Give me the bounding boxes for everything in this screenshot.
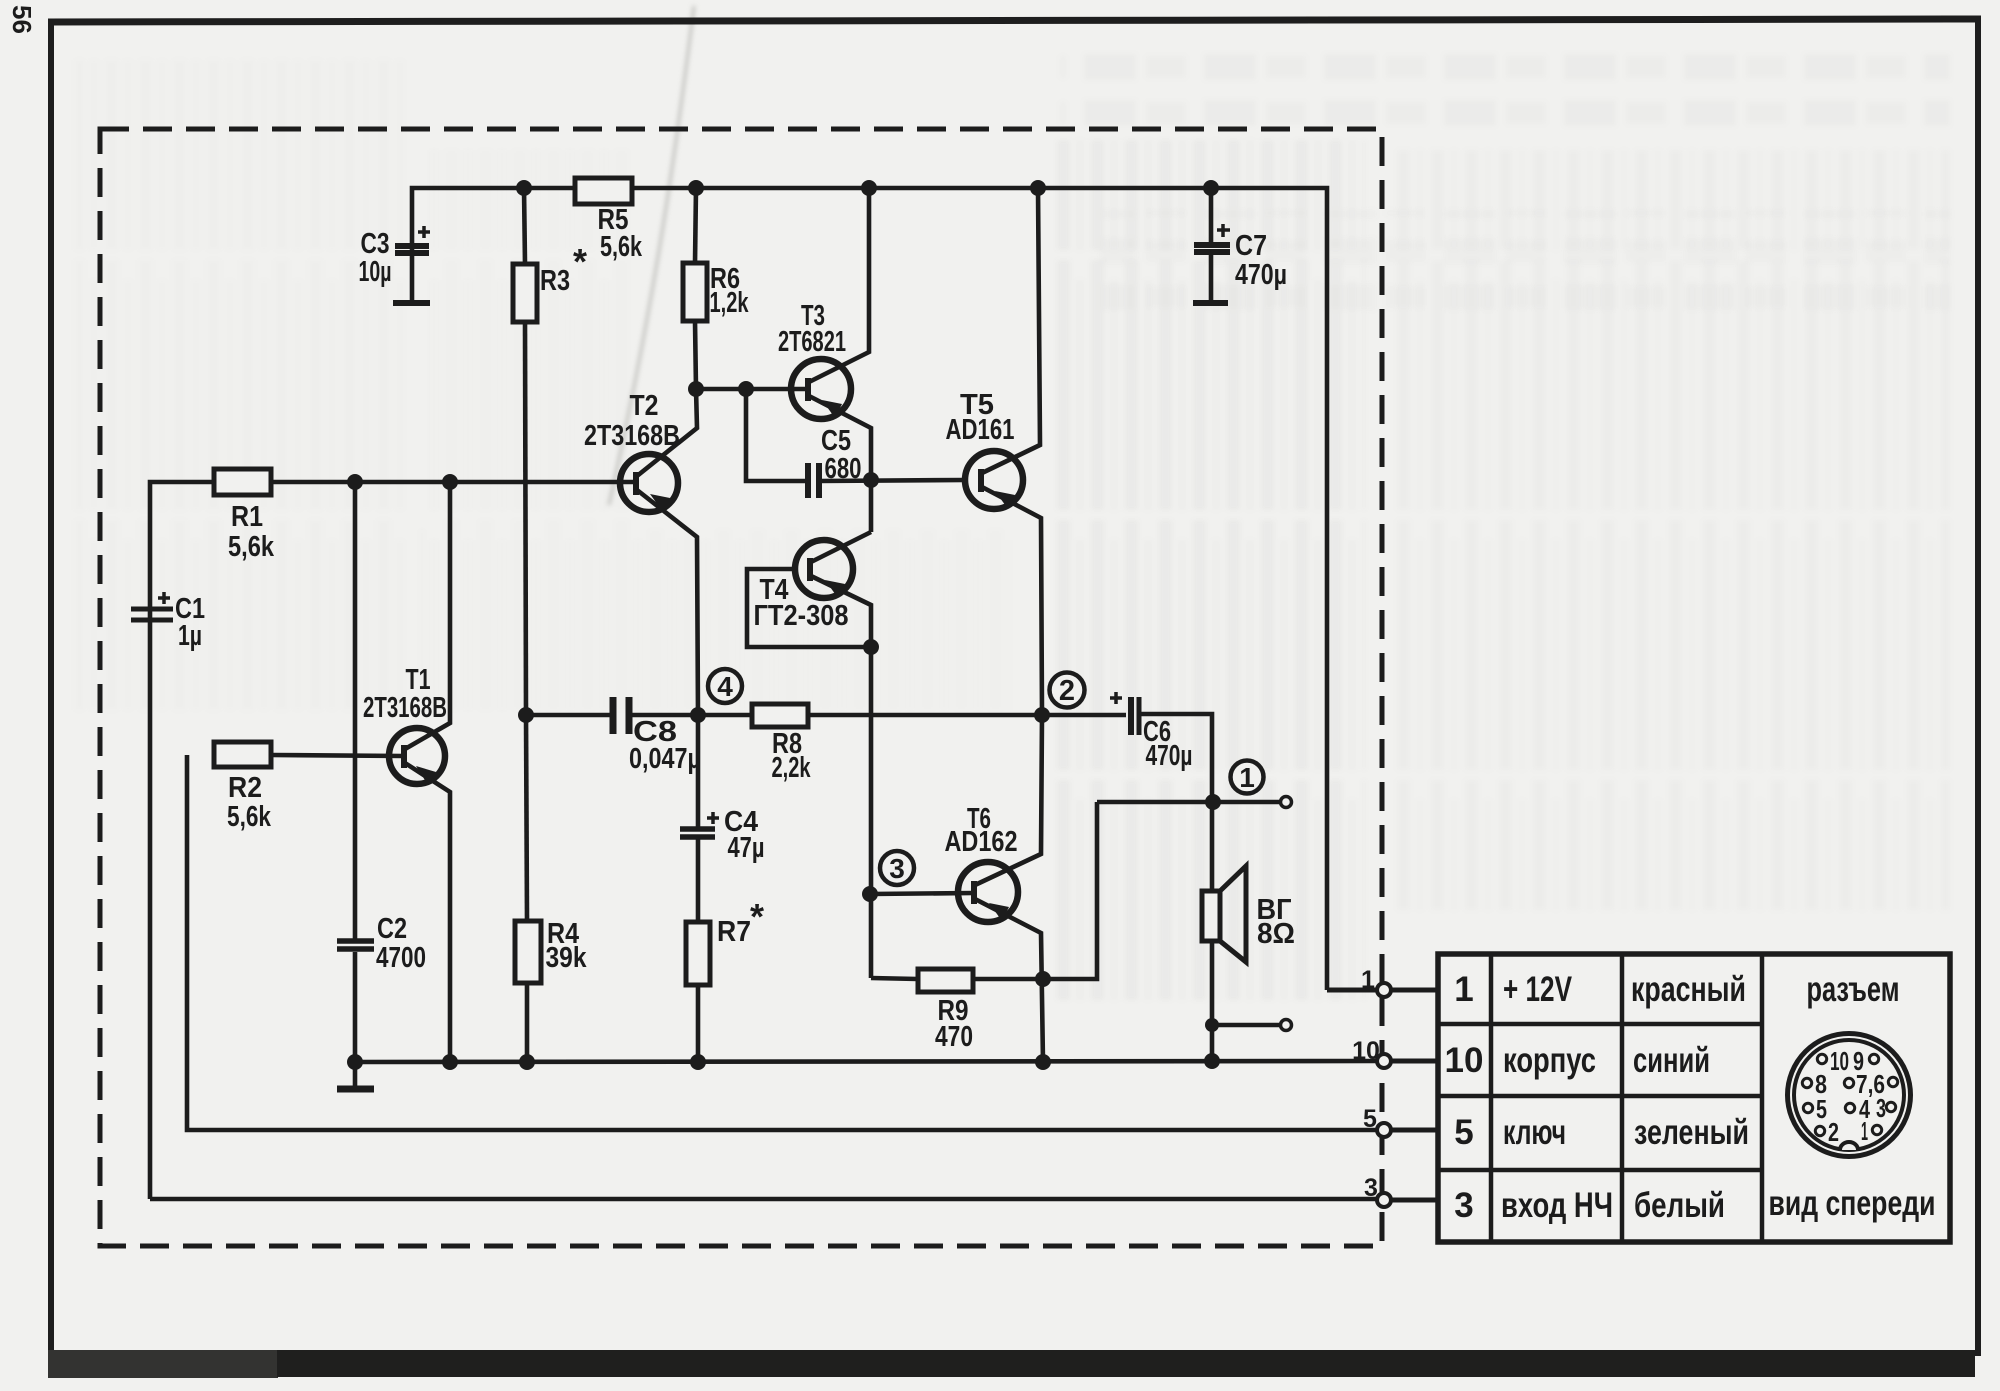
junction ground rail / speaker [1204,1053,1220,1069]
svg-text:1µ: 1µ [178,620,202,652]
capacitor C4 (47u) [680,715,719,922]
svg-text:вход НЧ: вход НЧ [1501,1186,1613,1225]
label R5 [598,204,643,263]
node junction T3 base wire / R6 [688,381,704,397]
pin number 10 [1352,1037,1380,1065]
wire: pin 1 (+12V) [1327,988,1438,993]
node 1 circle [1231,761,1264,794]
resistor R8 (2,2k) [752,704,1126,727]
capacitor C6 (electrolytic 470u) [1110,692,1212,1061]
pin circle 1 [1377,983,1391,997]
svg-text:5,6k: 5,6k [600,231,643,263]
label C2 [376,913,426,974]
svg-text:4700: 4700 [376,942,426,974]
transistor T5 (AD161) [965,188,1042,715]
node junction node3 [862,886,878,902]
svg-text:корпус: корпус [1503,1041,1596,1080]
svg-text:ключ: ключ [1503,1113,1566,1152]
table row 2: pin 10 body blue [1445,1041,1710,1080]
label speaker [1257,894,1296,950]
svg-text:3: 3 [889,853,905,884]
node junction speaker line / node1 row [1205,794,1221,810]
label T2 [584,390,680,452]
pin circle 5 [1377,1123,1391,1137]
transistor T6 (AD162) [958,715,1043,1062]
svg-text:8Ω: 8Ω [1257,918,1295,950]
node junction C5 / T4 collector / T5 base [863,472,879,488]
table row 3: pin 5 key green [1454,1113,1749,1152]
wire: output feedback loop (R9 row up to node1 row) [871,802,1097,979]
svg-text:56: 56 [7,5,37,34]
svg-text:синий: синий [1633,1041,1710,1080]
label R8 [772,728,812,784]
svg-text:470µ: 470µ [1146,740,1193,772]
terminal open circle lower [1281,1020,1292,1031]
svg-text:10: 10 [1830,1046,1849,1076]
node junction on rail at T3 collector [861,180,877,196]
wire: node 4 row (C8 - R8 - node2) [526,713,610,718]
svg-text:47µ: 47µ [728,832,765,864]
node number 3 [889,853,905,884]
node junction T6 emitter / R9 [1035,971,1051,987]
svg-text:R7: R7 [717,916,751,948]
label T1 [363,664,447,724]
pin circle 10 [1377,1054,1391,1068]
scan crease [609,6,694,505]
resistor R7 [686,922,710,1062]
svg-text:*: * [750,896,764,937]
label C6 [1143,716,1193,772]
node junction node2 (R8/T5e/T6c/C6) [1034,707,1050,723]
label T4 [754,574,849,632]
svg-text:T2: T2 [630,390,659,422]
label R1 [228,501,275,563]
svg-text:белый: белый [1634,1186,1725,1225]
bottom scan bar [48,1350,1975,1378]
svg-text:R3: R3 [540,265,570,297]
svg-text:2T3168В: 2T3168В [584,420,680,452]
svg-text:3: 3 [1364,1174,1378,1202]
svg-text:10: 10 [1445,1041,1484,1080]
label C5 [821,425,862,485]
svg-text:зеленый: зеленый [1634,1113,1749,1152]
svg-text:680: 680 [825,453,862,485]
ground symbol [337,1062,374,1089]
label R2 [227,772,272,833]
label C3 [359,228,392,288]
svg-text:5: 5 [1363,1105,1377,1133]
svg-text:R1: R1 [231,501,263,533]
svg-text:2: 2 [1059,675,1075,707]
svg-text:2T3168В: 2T3168В [363,692,447,724]
node junction R1 wire / C2 branch [347,474,363,490]
svg-text:2: 2 [1828,1117,1839,1147]
capacitor C5 (680) [808,463,965,498]
svg-text:красный: красный [1631,970,1746,1009]
svg-text:C2: C2 [377,913,407,945]
wire: pin 3 (LF input) [150,1199,1438,1200]
svg-text:2T6821: 2T6821 [778,326,846,358]
wire: +12V top rail [412,188,1327,990]
node 3 circle [880,851,914,885]
svg-text:1,2k: 1,2k [710,287,750,319]
label R4 [546,918,588,974]
capacitor C3 (electrolytic 10u) [393,226,430,303]
junction ground rail / T6 emitter [1035,1054,1051,1070]
table row 1: pin 1 +12V red [1454,970,1746,1009]
svg-text:470µ: 470µ [1235,259,1287,291]
svg-text:0,047µ: 0,047µ [629,743,701,775]
resistor R5 (5,6k) [575,178,632,204]
svg-text:1: 1 [1861,1116,1868,1146]
resistor R3 [513,188,537,715]
node number 2 [1059,675,1075,707]
node junction R3/R4 column / C8 [518,707,534,723]
svg-text:AD162: AD162 [945,826,1018,858]
label T6 [945,803,1018,858]
wire: second output terminal [1212,1023,1281,1028]
pin number 1 [1361,966,1375,994]
svg-text:3: 3 [1454,1186,1473,1225]
transistor T1 (2T3168V) [389,482,450,1061]
transistor T2 (2T3168V) [620,389,698,715]
table row 4: pin 3 LF-input white [1454,1186,1725,1225]
label T3 [778,300,846,358]
junction ground rail / C2 [347,1054,363,1070]
loudspeaker VG 8 Ohm [1202,866,1246,962]
resistor R1 (5,6k) [214,469,635,495]
junction ground rail / T1 emitter [442,1054,458,1070]
svg-text:*: * [573,241,587,282]
table header razem [1807,970,1900,1009]
svg-text:2,2k: 2,2k [772,752,812,784]
node junction T3 base / C5 branch [738,381,754,397]
resistor R2 (5,6k) [214,742,404,767]
svg-text:39k: 39k [546,942,588,974]
svg-text:+ 12V: + 12V [1503,970,1572,1009]
svg-text:5: 5 [1454,1113,1473,1152]
resistor R6 (1,2k) [683,188,707,389]
resistor R9 (470) [918,969,973,992]
label C8 [629,716,701,775]
capacitor C1 (1u) [131,592,173,620]
transistor T4 (GT2-308) [747,532,871,978]
wire: T3 base [696,387,807,392]
pin circle 3 [1377,1193,1391,1207]
wire: pin 5 (key) into table [1391,1128,1438,1133]
pin number 5 [1363,1105,1377,1133]
node junction R1 wire / T1 collector [442,474,458,490]
label T5 [946,389,1015,446]
resistor R4 (39k) [515,715,541,1062]
wire: pin 10 (body) into table [1391,1059,1438,1064]
node junction on rail at C7 [1203,180,1219,196]
node junction on rail at R6 [688,180,704,196]
ground rail wire [355,1061,1377,1062]
svg-text:разъем: разъем [1807,970,1900,1009]
label R9 [935,995,973,1053]
svg-text:5,6k: 5,6k [227,801,272,833]
node number 1 [1239,762,1255,793]
label C1 [175,593,205,652]
svg-text:4: 4 [717,671,733,702]
svg-text:3: 3 [1876,1093,1886,1123]
label R3 [540,241,587,297]
svg-text:вид спереди: вид спереди [1769,1184,1936,1223]
svg-text:5: 5 [1816,1094,1827,1124]
wire: C5 branch down [746,389,808,481]
transistor T3 (2T6821) [791,188,871,532]
DIN connector front view [1788,1034,1911,1157]
node junction T4 emitter / frame [863,639,879,655]
node 4 circle [708,669,742,703]
node 2 circle [1050,673,1085,708]
svg-text:10: 10 [1352,1037,1380,1065]
svg-text:10µ: 10µ [359,256,392,288]
svg-text:1: 1 [1361,966,1375,994]
pin number 3 [1364,1174,1378,1202]
svg-text:AD161: AD161 [946,414,1015,446]
svg-text:470: 470 [935,1021,973,1053]
junction ground rail / R4 [519,1054,535,1070]
capacitor C2 (4700) [337,482,374,1062]
node junction C8 / T2 emitter / C4 [690,707,706,723]
label R6 [710,263,750,319]
connector pin table [1438,954,1950,1242]
svg-text:C7: C7 [1235,230,1267,262]
svg-text:5,6k: 5,6k [228,531,275,563]
wire: input node to R1 [150,482,214,1199]
node number 4 [717,671,733,702]
dashed module boundary box [100,129,1382,1246]
label C4 [724,806,765,864]
node junction speaker line / terminal [1205,1018,1219,1032]
junction ground rail / R7 [690,1054,706,1070]
capacitor C7 (electrolytic 470u) [1193,188,1230,303]
connector pin holes [1802,1054,1897,1135]
label R7 [717,896,764,948]
svg-text:1: 1 [1454,970,1473,1009]
capacitor C8 (0,047u) [613,697,752,734]
svg-text:R2: R2 [228,772,262,804]
wire: node 1 output row [1097,800,1281,805]
svg-text:1: 1 [1239,762,1255,793]
node junction on rail at T5 collector [1030,180,1046,196]
table caption front view [1769,1184,1936,1223]
label C7 [1235,230,1287,291]
node junction on rail at R3 [516,180,532,196]
svg-text:ГТ2-308: ГТ2-308 [754,600,849,632]
connector pin numbers [1815,1046,1886,1147]
wire: node 3 row to T6 base [870,893,974,894]
terminal open circle node1 [1281,797,1292,808]
wire: R2 branch down to pin 5 [187,755,1377,1130]
